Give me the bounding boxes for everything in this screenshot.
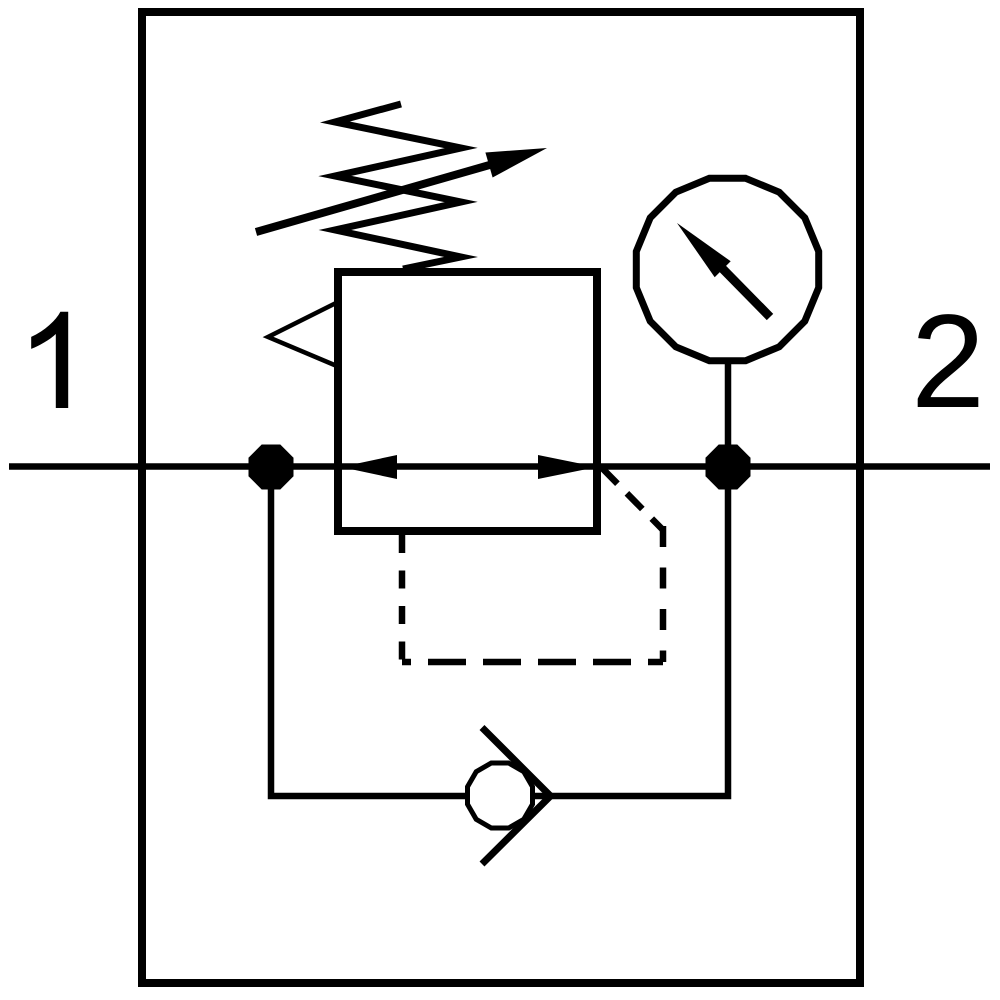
svg-text:2: 2 [911, 288, 985, 436]
